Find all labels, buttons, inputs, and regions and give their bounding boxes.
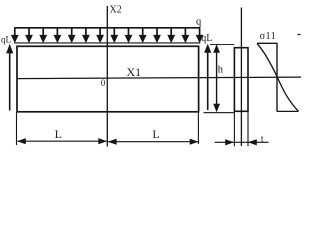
distributed load arrows (14) <box>11 28 19 43</box>
t dimension line with inward arrows <box>215 139 269 145</box>
h bottom extension line <box>204 112 235 114</box>
beam neutral axis X1 (long centerline through section and sigma plot) <box>17 77 301 79</box>
sigma diagram vertical axis <box>276 43 278 111</box>
right reaction arrow qL <box>204 44 211 110</box>
section vertical centerline <box>240 8 242 147</box>
svg-text:X2: X2 <box>110 5 122 16</box>
svg-text:h: h <box>218 64 224 75</box>
sigma diagram top edge <box>257 42 278 44</box>
h dimension double arrow <box>213 44 220 112</box>
L dim extension lines <box>16 112 18 145</box>
svg-text:X1: X1 <box>127 65 142 79</box>
svg-text:t: t <box>261 134 264 144</box>
svg-text:L: L <box>152 127 159 141</box>
svg-text:L: L <box>55 127 62 141</box>
svg-text:qL: qL <box>1 34 11 44</box>
small dash artifact top right <box>298 34 301 36</box>
section edge extension lines <box>233 111 235 146</box>
h top extension line <box>210 44 234 46</box>
svg-text:σ11: σ11 <box>260 31 277 42</box>
svg-text:qL: qL <box>201 33 212 44</box>
sigma stress curve <box>257 44 299 112</box>
X2 axis vertical line <box>106 6 108 147</box>
left reaction arrow qL <box>6 44 13 111</box>
beam outline rectangle <box>17 46 199 112</box>
svg-text:0: 0 <box>101 78 106 88</box>
cross-section rectangle <box>234 48 248 112</box>
L dimension left <box>17 138 107 144</box>
L dimension right <box>108 139 199 145</box>
svg-text:q: q <box>196 16 202 27</box>
distributed load bottom rail <box>14 42 200 44</box>
distributed load top line <box>14 27 200 29</box>
sigma diagram bottom edge <box>277 110 299 112</box>
